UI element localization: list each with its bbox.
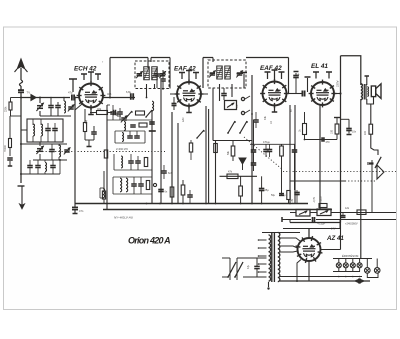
left column caps x163 xyxy=(160,78,166,80)
vertical x213 below IF2 xyxy=(212,88,214,141)
oscillator trimmer under tube xyxy=(121,117,127,119)
ECH42 lower-left pin lead xyxy=(75,104,82,110)
chassis bus y203 xyxy=(75,203,308,205)
wire switch bottom xyxy=(213,140,252,142)
coil L3 xyxy=(41,124,43,136)
capacitor x294 xyxy=(292,149,298,151)
capacitor mixer cathode xyxy=(91,131,97,133)
resistor x172 bottom xyxy=(170,187,174,197)
variable capacitor tuning gang 2 xyxy=(37,148,43,150)
tube V2 EAF42 envelope xyxy=(177,82,201,106)
wire cap to ECH42 grid xyxy=(76,97,80,99)
row E circle contact xyxy=(153,183,156,186)
mains plug arrows xyxy=(355,279,360,283)
ground T AVC xyxy=(73,213,78,215)
wire RF column down xyxy=(20,98,22,184)
bottom wire y281 xyxy=(280,280,370,282)
IF transformer T2 dashed box xyxy=(208,60,246,88)
pilot lamp wires xyxy=(366,259,368,268)
transformer left tap dots xyxy=(258,239,260,241)
svg-text:+240/260V: +240/260V xyxy=(345,222,358,226)
terminal lamp 1 xyxy=(336,263,341,268)
ECH42 bottom lead to ground xyxy=(90,108,92,114)
resistor 47k feedback xyxy=(227,174,238,179)
wires left of switch xyxy=(222,257,230,259)
coil L5 xyxy=(45,163,47,172)
resistor x183 bottom xyxy=(181,185,185,195)
row B cap xyxy=(130,124,136,126)
svg-text:100: 100 xyxy=(331,129,334,134)
trimmer row3 xyxy=(64,149,70,151)
feedback wire y176 xyxy=(220,175,258,177)
top cap contact stub of ECH42 xyxy=(72,79,74,92)
resistor 1k cathode xyxy=(303,124,307,135)
transformer bottom exit xyxy=(268,282,270,287)
resistor x216 mid xyxy=(214,144,218,153)
wire EAF2 right pin xyxy=(287,93,303,95)
svg-text:AZ 41: AZ 41 xyxy=(326,235,344,242)
capacitor 6n6 under EAF xyxy=(161,170,167,172)
resistor x240 bottom xyxy=(239,186,243,196)
svg-text:Orion 420 A: Orion 420 A xyxy=(128,236,170,246)
wire AZ41 cathode right xyxy=(321,249,341,251)
power transformer core xyxy=(271,232,273,282)
ground arrow left chassis xyxy=(21,186,23,205)
wire band box to column xyxy=(21,129,27,131)
tone switch feed xyxy=(371,134,378,155)
wire y139 cathode xyxy=(305,139,338,141)
wire top tie y144 xyxy=(250,143,295,145)
wire y212 row xyxy=(290,212,296,214)
pilot lamp right xyxy=(374,268,380,274)
grid T-stub EL41 xyxy=(307,78,309,92)
switch contact mid xyxy=(197,130,204,138)
terminal lamp 3 xyxy=(350,263,355,268)
wire EAF1 left pin xyxy=(170,93,177,95)
capacitor detector xyxy=(221,93,227,95)
AVC dotted line right xyxy=(283,170,396,172)
wire top entry IF1 right xyxy=(151,57,170,59)
wire row4 right down xyxy=(59,160,61,174)
capacitor AVC 47n xyxy=(72,206,78,208)
power transformer primary winding xyxy=(269,235,271,281)
svg-text:6,8µ: 6,8µ xyxy=(126,90,132,94)
vertical x252 xyxy=(251,75,253,204)
mains switch xyxy=(229,258,231,280)
resistor x233 top xyxy=(231,146,235,156)
capacitor left column low xyxy=(7,157,13,159)
wires mains to transformer xyxy=(237,257,267,259)
svg-text:10n: 10n xyxy=(352,131,357,134)
capacitor x253 lower xyxy=(251,162,257,164)
capacitor on cathode wire xyxy=(321,137,323,142)
capacitor row4 a xyxy=(27,165,33,167)
terminal lamp 4 xyxy=(357,263,362,268)
svg-text:8V: 8V xyxy=(291,109,293,112)
oscillator coil row B xyxy=(124,122,126,131)
tube V4 EL41 envelope xyxy=(311,82,334,105)
coil on x152 column xyxy=(152,101,154,111)
vertical screen x178 xyxy=(177,123,179,204)
resistor osc column bottom xyxy=(102,191,105,199)
antenna series squiggle xyxy=(20,80,23,86)
AZ41 anode wires xyxy=(280,238,300,241)
oscillator row A right contact xyxy=(146,110,152,117)
right osc vertical x152 xyxy=(151,110,153,204)
oscillator row D coil xyxy=(121,156,123,168)
volume pot oval 1 xyxy=(296,210,310,217)
svg-text:47n: 47n xyxy=(79,209,84,213)
ground T mixer xyxy=(87,146,92,148)
svg-text:2×460 kHz: 2×460 kHz xyxy=(116,148,129,151)
svg-text:235V: 235V xyxy=(336,80,340,87)
capacitor at IF1 input xyxy=(130,93,132,100)
AZ41 top pin wire xyxy=(308,229,310,239)
capacitor row1 b xyxy=(55,105,61,107)
capacitor under ECH42 xyxy=(113,110,115,116)
output transformer core xyxy=(363,84,365,100)
svg-text:EAF: EAF xyxy=(182,117,185,122)
resistor x370 tone xyxy=(369,124,373,134)
row E ties xyxy=(113,176,152,178)
svg-text:NY–HGLV HU: NY–HGLV HU xyxy=(114,216,134,220)
wave-trap series arrow xyxy=(29,95,36,101)
row E caps xyxy=(131,183,137,185)
oscillator row A switch contact xyxy=(126,111,132,118)
tube V1 ECH42 envelope xyxy=(79,84,103,108)
cap pair x266 xyxy=(263,149,269,151)
wire antenna to mixer grid xyxy=(21,97,70,99)
AZ41 bottom pin down xyxy=(308,261,310,281)
row C tie wires xyxy=(115,130,145,132)
wire row A tie xyxy=(107,119,152,121)
svg-text:EL 41: EL 41 xyxy=(311,63,328,70)
switch contact pair band a xyxy=(228,121,235,133)
coil L4 xyxy=(59,145,61,157)
EAF42-1 cathode ground xyxy=(188,107,190,113)
tone switch triangle xyxy=(377,165,384,179)
capacitor 10n xyxy=(341,118,350,120)
ECH42 top pin stubs xyxy=(83,74,85,80)
coil L2 xyxy=(33,124,35,136)
wire y222 B+ row xyxy=(290,222,341,224)
vertical anode feed x172 xyxy=(171,112,173,204)
svg-text:~4V: ~4V xyxy=(292,198,294,203)
capacitor 25u xyxy=(259,188,265,190)
heater bottom wire y276 xyxy=(280,276,333,278)
EL41 right pin wire to B+ xyxy=(334,93,341,95)
svg-text:50µ: 50µ xyxy=(271,194,276,197)
transformer left taps xyxy=(258,239,267,241)
resistor x191 mid xyxy=(189,143,192,152)
wire y228 row xyxy=(283,228,340,230)
capacitor x343 xyxy=(341,215,346,217)
resistor mixer grid leak xyxy=(83,123,86,132)
mains cap xyxy=(254,265,260,267)
capacitor x297 bottom xyxy=(294,192,300,194)
svg-text:25µ: 25µ xyxy=(265,189,270,192)
antenna ANT xyxy=(20,68,22,80)
wire mixer bottom tie xyxy=(85,139,94,141)
T-stub above phono xyxy=(243,74,245,89)
dotted segment y181 right xyxy=(345,180,375,182)
vertical x288 down to coupling xyxy=(288,58,290,94)
EL41 top stubs xyxy=(315,72,317,79)
capacitor row1 a xyxy=(48,105,54,107)
bar on x152 column xyxy=(149,130,156,132)
svg-text:TV: TV xyxy=(27,91,31,95)
wire y219 row xyxy=(282,219,311,221)
capacitor antenna coupling xyxy=(18,89,24,91)
coil L1 aerial xyxy=(64,101,66,113)
vertical x208 volume xyxy=(208,109,210,204)
capacitor band a xyxy=(45,128,51,130)
svg-text:46k: 46k xyxy=(97,107,102,111)
gang diagonal dotted xyxy=(244,137,283,170)
left column caps x157 xyxy=(154,73,160,75)
capacitor below EAF2 xyxy=(253,119,259,121)
capacitor 6n on x161 xyxy=(158,189,164,191)
wire top entry IF2 xyxy=(202,58,204,89)
svg-text:6n6: 6n6 xyxy=(168,172,173,175)
resistor x281 xyxy=(280,146,284,156)
resistor 100 right xyxy=(335,124,339,134)
EAF42-2 top stubs xyxy=(267,72,269,79)
EL41 left coupling cap xyxy=(301,91,303,97)
volume pot oval 2 xyxy=(317,209,331,216)
vertical osc feed x107 xyxy=(106,105,108,210)
svg-text:PU: PU xyxy=(236,104,239,108)
svg-text:47p: 47p xyxy=(68,91,73,95)
volume potentiometer box xyxy=(225,101,237,110)
diode detector arrow xyxy=(239,158,246,164)
phono input jacks xyxy=(241,97,244,100)
svg-text:470: 470 xyxy=(326,141,331,144)
wire row1 bottom tie xyxy=(40,115,71,117)
capacitor on x152 column xyxy=(149,121,155,123)
B+ vertical from top x340 xyxy=(340,56,342,208)
capacitor row3 a xyxy=(49,149,55,151)
power transformer secondary winding xyxy=(278,232,280,281)
wire output row y181 xyxy=(290,180,345,182)
oscillator row E coil double xyxy=(120,178,122,192)
svg-text:70000: 70000 xyxy=(4,144,7,152)
EL41 bottom pin long vertical xyxy=(319,105,321,210)
small oval above pot2 xyxy=(319,204,327,208)
wire y232 row xyxy=(262,232,300,234)
terminal stubs xyxy=(338,259,340,263)
vertical x206 under EAF1 xyxy=(205,106,207,204)
IF2 exit wires xyxy=(219,84,221,101)
switch contact pair band b xyxy=(240,121,247,133)
terminal bottom dots xyxy=(338,276,340,278)
EAF42-1 top stubs xyxy=(181,73,183,80)
wire row3 ties xyxy=(21,143,67,145)
vertical x372 down xyxy=(371,160,373,212)
chassis bus y209 xyxy=(103,209,332,211)
variable capacitor tuning gang 1 xyxy=(37,105,43,107)
capacitor C1 47p grid coupling xyxy=(71,95,73,101)
resistor under ECH42 46k xyxy=(97,111,108,115)
terminal lamp 2 xyxy=(343,263,348,268)
capacitor column x296 xyxy=(295,73,297,75)
wire row4 bottom xyxy=(21,173,60,175)
capacitor x190 bottom xyxy=(187,194,193,196)
svg-text:222: 222 xyxy=(364,130,367,135)
terminal bottom wire xyxy=(333,271,360,273)
row C coil xyxy=(122,133,124,142)
row E box xyxy=(146,181,149,190)
IF1 exit wire left xyxy=(146,84,148,98)
capacitor right of IF1 xyxy=(172,103,177,105)
row B box xyxy=(139,123,147,127)
svg-text:~6,3V: ~6,3V xyxy=(314,196,316,203)
gang dotted line xyxy=(36,151,165,153)
speaker return wire xyxy=(360,99,362,259)
oscillator row A box xyxy=(136,111,145,115)
resistor x288 bottom xyxy=(287,191,290,200)
vertical x290 xyxy=(289,105,291,204)
svg-text:ÉRINTÉSVM: ÉRINTÉSVM xyxy=(342,253,359,258)
row C caps xyxy=(127,135,133,137)
tube V3 EAF42 second envelope xyxy=(263,82,287,106)
row D box xyxy=(144,158,147,167)
rectifier tube V5 AZ41 envelope xyxy=(298,238,321,261)
bus junction dots xyxy=(106,203,108,205)
ECH42 anode wire right xyxy=(103,97,135,99)
capacitor row4 b xyxy=(35,165,41,167)
svg-text:~127V: ~127V xyxy=(321,196,323,203)
row D caps xyxy=(128,160,134,162)
ground T left column xyxy=(8,165,13,167)
AZ41 lower-left pin down xyxy=(297,260,301,282)
speaker secondary loop xyxy=(367,97,374,104)
capacitor band b xyxy=(52,128,58,130)
wire y57 from IF2 to EL41 grid drop xyxy=(246,57,289,59)
AZ41 heater wires from trafo xyxy=(280,246,298,248)
capacitor x281 bottom cap xyxy=(279,193,284,195)
tone switch arm xyxy=(375,157,381,168)
svg-text:EAF 42: EAF 42 xyxy=(260,65,282,72)
vertical x295 xyxy=(294,105,296,204)
speaker LS xyxy=(371,86,375,97)
EAF42-2 cathode ground xyxy=(274,106,276,112)
vertical x215 detector xyxy=(215,141,217,204)
svg-text:220k: 220k xyxy=(5,106,8,112)
wire AVC column x75 xyxy=(74,98,76,204)
capacitor x253 upper xyxy=(251,149,257,151)
band filter box outline xyxy=(27,119,63,142)
IF transformer T1 dashed box xyxy=(135,61,169,89)
wire EAF1 right pin to IF2 xyxy=(201,93,208,95)
svg-text:EAF 42: EAF 42 xyxy=(174,66,196,73)
wire left column tie xyxy=(10,115,21,117)
wire top entry IF1 left xyxy=(110,57,148,59)
oscillator row A caps xyxy=(110,111,116,113)
capacitor x313 row xyxy=(312,217,314,222)
output transformer secondary stub xyxy=(365,75,370,77)
svg-text:470µµ: 470µµ xyxy=(263,141,270,144)
transformer tap down x370 xyxy=(370,104,372,124)
speaker feed loop top xyxy=(341,56,361,85)
row D tie xyxy=(114,169,152,171)
ground bar left xyxy=(18,185,25,187)
left padder box xyxy=(104,150,107,158)
IF1 exit wire right xyxy=(154,84,156,89)
output transformer primary xyxy=(361,84,363,100)
tone switch cap blob xyxy=(369,162,374,164)
terminal lower wire xyxy=(333,276,362,278)
trimmer row1 xyxy=(68,106,74,108)
pilot lamp left xyxy=(365,268,371,274)
wire terminal top y258 xyxy=(333,258,372,260)
left padder coil xyxy=(103,188,105,198)
junction IF1 xyxy=(146,97,148,99)
resistor 220k antenna leak xyxy=(9,102,12,110)
resistor x361 row xyxy=(357,210,366,215)
svg-text:47µ: 47µ xyxy=(247,264,250,269)
capacitor row4 c xyxy=(50,165,56,167)
resistor 70000 column xyxy=(9,139,12,148)
long vertical x161 from IF1 xyxy=(160,82,162,204)
